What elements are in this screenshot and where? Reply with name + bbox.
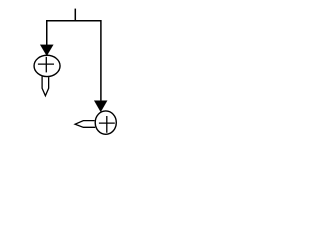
arrowhead into summing junction S2 bbox=[94, 101, 107, 112]
plus sign in S1 bbox=[38, 57, 54, 73]
wire: input stub at top bbox=[74, 9, 76, 21]
hollow output arrow from S1 (pointing down) bbox=[42, 76, 49, 95]
summing junction S2 (circle with plus) bbox=[95, 111, 116, 134]
plus sign in S2 bbox=[99, 116, 115, 133]
hollow output arrow from S2 (pointing left) bbox=[75, 121, 95, 128]
summing junction S1 (circle with plus) bbox=[34, 55, 60, 76]
wire: branch from left junction up, across, and down to right junction bbox=[47, 21, 101, 101]
arrowhead into summing junction S1 bbox=[40, 45, 53, 56]
